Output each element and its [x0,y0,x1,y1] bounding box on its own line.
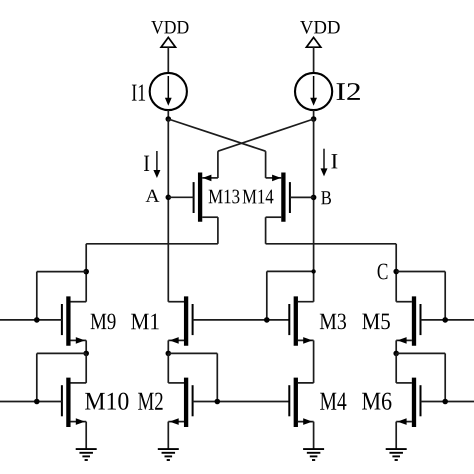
current label I right [331,154,337,168]
wire node B to M3 gate tie horizontal [267,270,314,272]
wire M2 drain up to junction [167,353,169,383]
M1 source arrow [170,337,179,344]
wire VDD-left to current source I1 [167,47,169,73]
wire M9 gate tie horizontal [37,271,86,273]
wire M10 gate tie vertical [36,353,38,401]
transistor M3 [289,296,313,345]
M6 source arrow [397,418,406,425]
current source I1 [150,73,187,110]
M9 gate bias wire to left edge [0,319,62,321]
node B tie junction [311,269,315,273]
power label VDD left [151,21,188,34]
label I2 [337,83,360,100]
M13 source arrow (points into channel) [203,175,212,182]
node C [393,269,399,275]
label M5 [362,314,390,330]
current source I2 [295,73,332,110]
M5 source arrow [397,337,406,344]
transistor M2 [168,378,192,427]
M10 gate bias wire to left edge [0,401,62,403]
wire M6 drain up to junction [395,353,397,383]
wire M2 source down to ground [167,422,169,450]
ground under M2 [158,449,179,460]
wire M9 gate tie vertical [36,272,38,320]
label C [378,264,388,280]
M2 source arrow [170,418,179,425]
node M9 drain-gate tie [83,269,89,275]
transistor M6 [396,378,420,427]
node B [311,195,317,201]
wire M2 gate tie vertical [216,353,218,401]
M3 source arrow [303,337,312,344]
label M6 [362,393,391,410]
transistor M13 [194,173,218,222]
M4 source arrow [303,418,312,425]
node junction left (I1 output) [166,116,172,122]
wire M1 source junction to M2 gate (horizontal) [168,352,217,354]
label M14 [243,190,274,204]
M10 source arrow [76,418,85,425]
label M4 [320,393,346,410]
wire M4 source down to ground [313,422,315,450]
wire M1-M3 shared gate row [193,319,290,321]
label A [146,190,160,202]
node junction right (I2 output) [311,116,317,122]
node M5 gate bias junction [442,317,448,323]
transistor M10 [62,378,86,427]
power label VDD right [300,21,340,34]
wire M14 source to node C column (right rail) [266,243,397,245]
wire M5 source junction to M6 gate (horizontal) [396,352,445,354]
M14 source arrow (points into channel) [272,175,281,182]
current arrow down left [153,151,160,178]
wire M5 gate branch vertical [444,272,446,320]
transistor M9 [62,296,86,345]
transistor M1 [168,296,192,345]
power symbol VDD left (up arrow) [161,37,175,47]
ground under M10 [76,449,97,460]
label I1 [132,84,145,100]
node M9 gate bias junction [34,317,40,323]
current arrow down right [321,149,328,177]
wire M14 source down [265,217,267,244]
label M3 [320,314,346,330]
wire node A column (A branch) [167,119,169,302]
wire cross-couple from right node to M13 drain [218,119,314,178]
wire VDD-right to current source I2 [313,47,315,73]
node M3 gate tie junction [264,317,270,323]
wire node C to M5 gate branch horizontal [396,271,445,273]
label M9 [91,314,116,330]
current label I left [144,156,149,171]
M14 gate wire from node B [290,196,314,198]
M5 gate bias wire to right edge [421,319,474,321]
wire M13 source to M9 drain (left rail) [86,243,218,245]
wire M3 gate tie vertical [266,271,268,320]
label M2 [138,393,162,410]
node M1 source junction [166,351,172,357]
M9 source arrow [76,337,85,344]
wire M9 source junction to M10 gate (horizontal) [37,352,86,354]
wire cross-couple from left node to M14 drain [168,119,265,178]
wire M6 gate tie vertical [444,353,446,401]
wire node C column [395,244,397,302]
ground under M6 [386,449,407,460]
wire M9 source down to junction [85,340,87,353]
wire M10 source down to ground [85,422,87,450]
wire M9 drain column [85,244,87,302]
node M6 gate bias junction [442,399,448,405]
wire M13 source down [217,217,219,244]
wire M1 source down to junction [167,340,169,353]
wire M6 source down to ground [395,422,397,450]
M6 gate bias wire to right edge [421,401,474,403]
M13 gate wire from node A [168,196,193,198]
label M1 [131,314,159,330]
wire I2 to node B column [313,110,315,119]
ground under M4 [303,449,324,460]
transistor M14 [266,173,290,222]
node M5 source junction [393,351,399,357]
node M2 gate tie junction [215,399,221,405]
node M9 source junction [83,351,89,357]
transistor M5 [396,296,420,345]
power symbol VDD right (up arrow) [306,37,320,47]
wire M5 source down to junction [395,340,397,353]
wire I1 to node A column [167,110,169,119]
wire M3 source down to M4 drain [313,340,315,383]
label M10 [85,393,128,410]
label M13 [209,190,240,204]
node A [166,195,172,201]
wire M2-M4 shared gate row [193,401,290,403]
transistor M4 [289,378,313,427]
node M10 gate bias junction [34,399,40,405]
label B [321,191,331,204]
wire node B column (B branch) [313,119,315,302]
wire M10 drain up to junction [85,353,87,383]
